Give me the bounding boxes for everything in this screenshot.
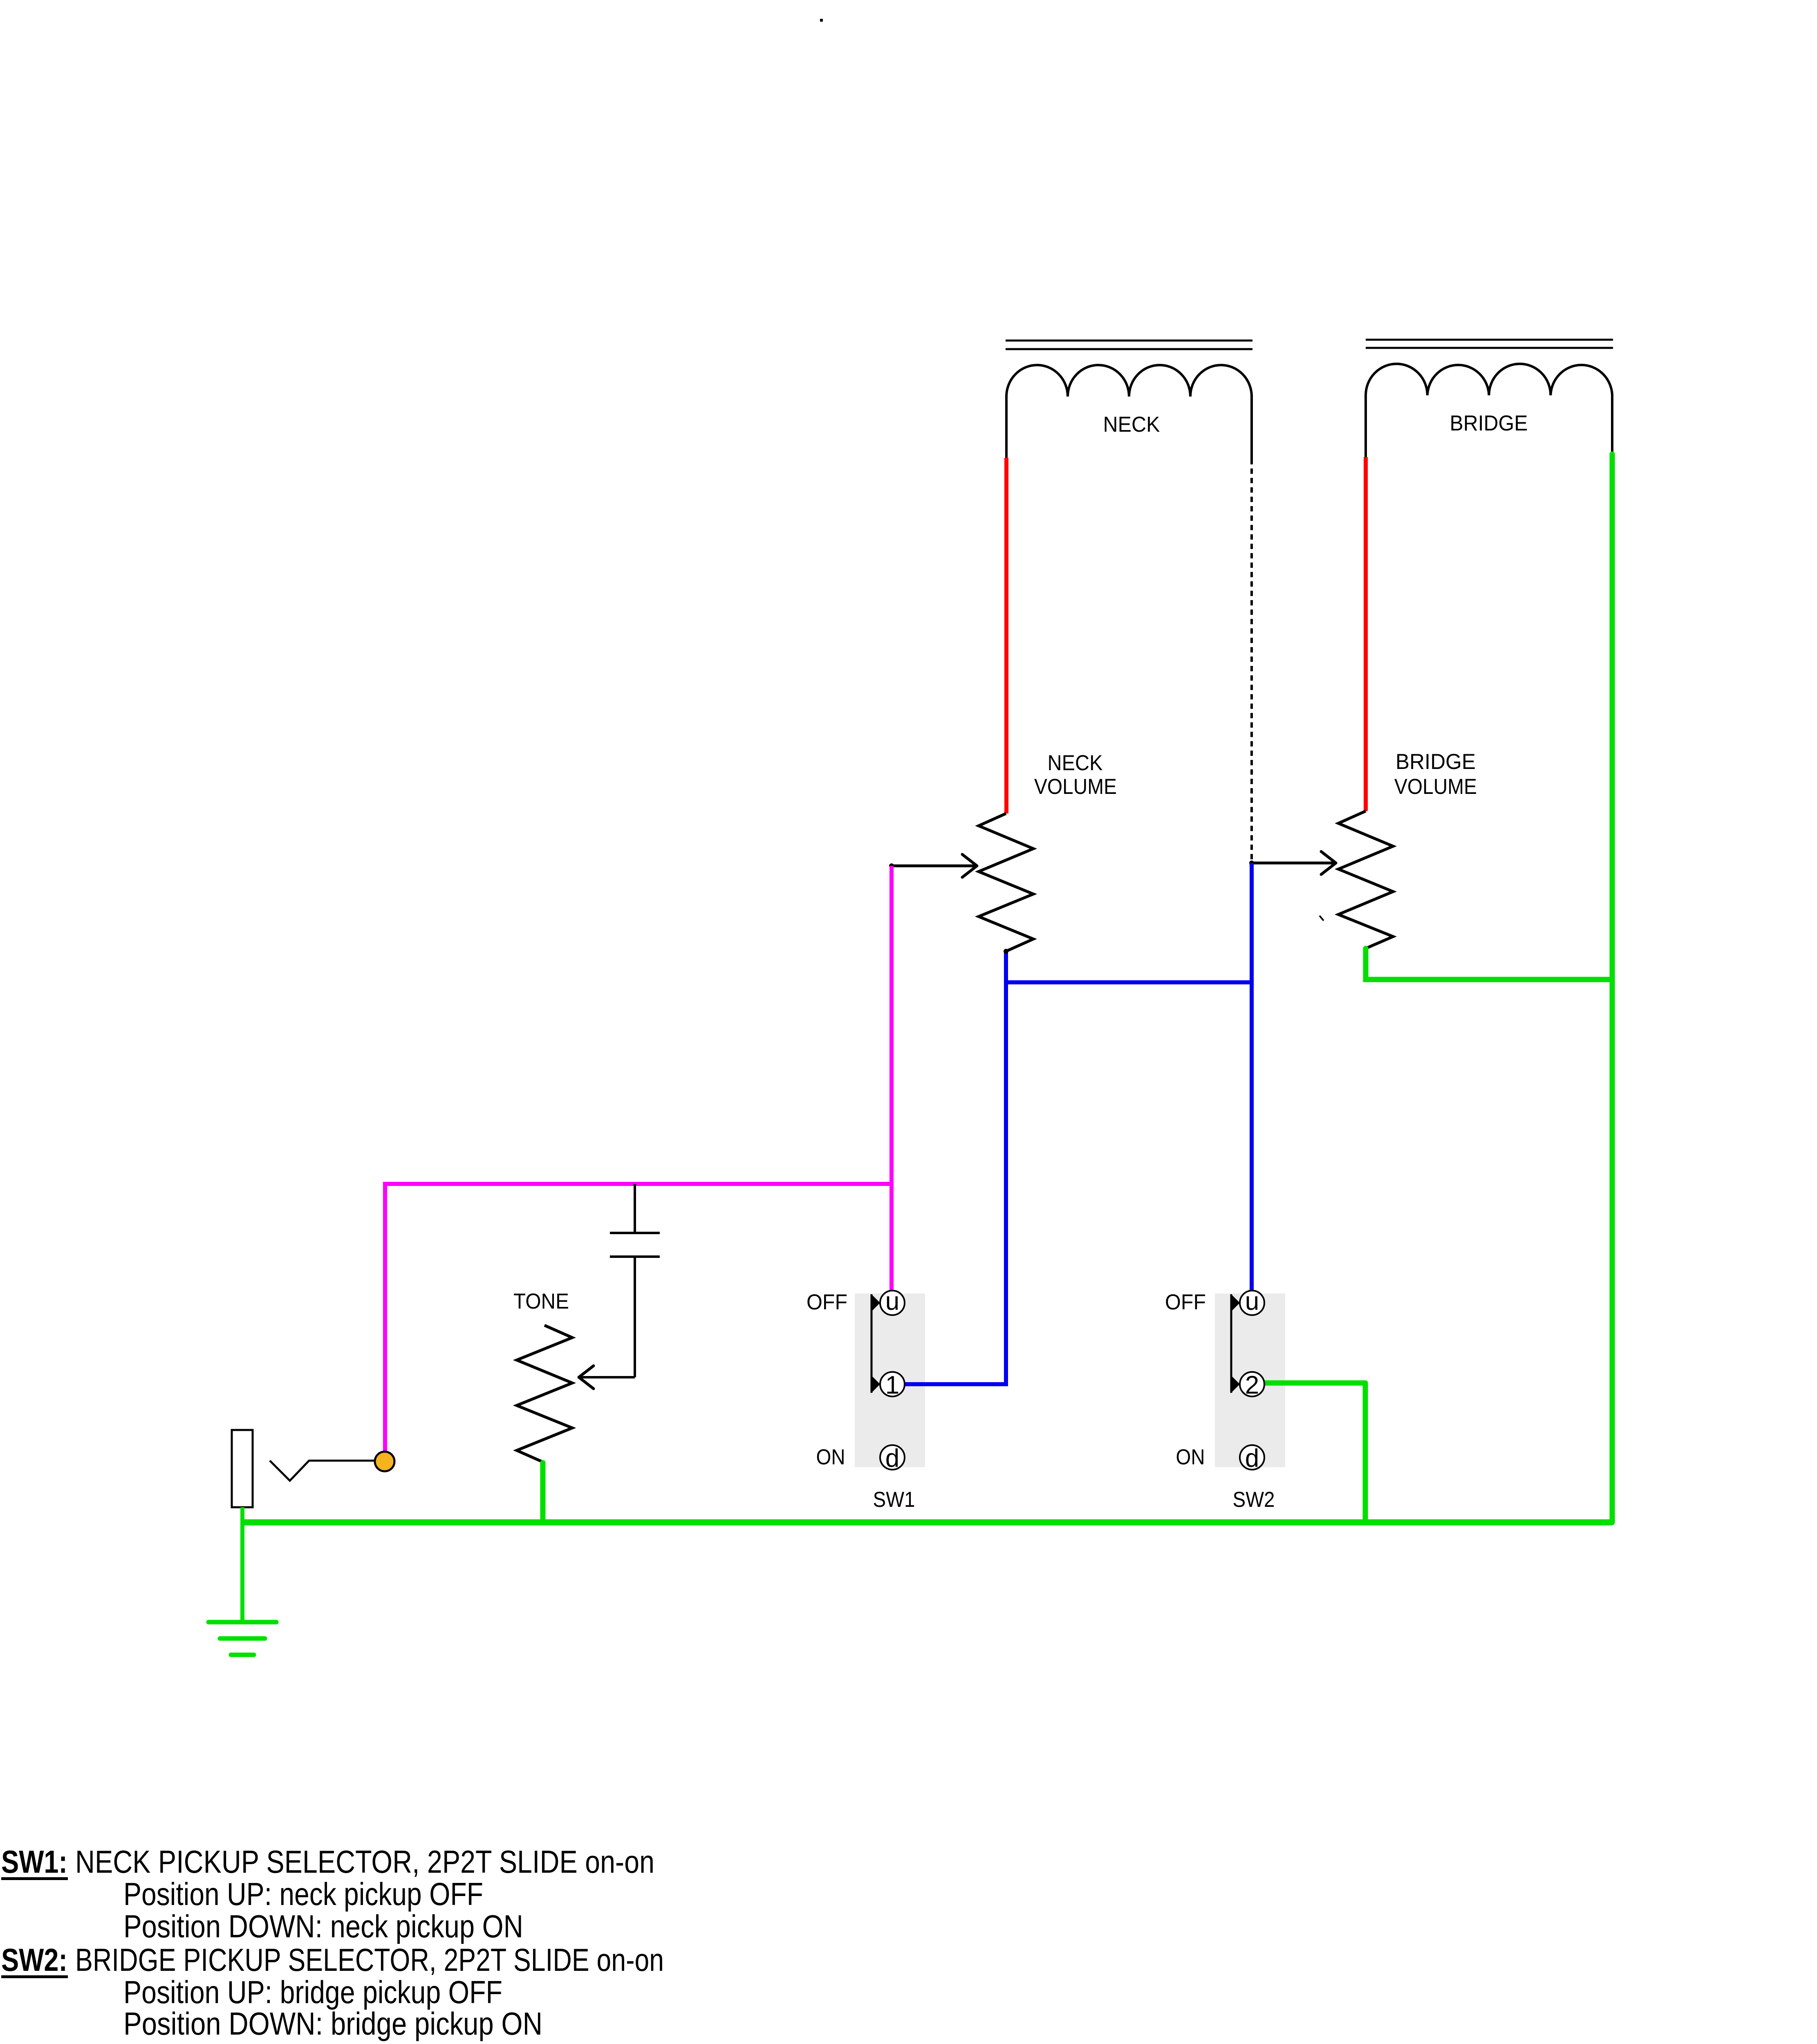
svg-text:d: d — [1245, 1444, 1259, 1472]
svg-text:Position UP: bridge pickup OFF: Position UP: bridge pickup OFF — [123, 1974, 502, 2010]
svg-text:ON: ON — [1176, 1445, 1205, 1469]
svg-text:ON: ON — [816, 1445, 845, 1469]
svg-text:VOLUME: VOLUME — [1034, 775, 1117, 799]
svg-text:NECK: NECK — [1103, 412, 1160, 437]
svg-text:VOLUME: VOLUME — [1394, 775, 1477, 799]
svg-text:Position UP: neck pickup OFF: Position UP: neck pickup OFF — [123, 1876, 483, 1912]
svg-text:BRIDGE: BRIDGE — [1396, 750, 1476, 774]
svg-text:OFF: OFF — [1165, 1290, 1206, 1314]
svg-text:BRIDGE: BRIDGE — [1450, 411, 1528, 435]
svg-text:d: d — [885, 1444, 899, 1472]
svg-text:NECK PICKUP SELECTOR, 2P2T SLI: NECK PICKUP SELECTOR, 2P2T SLIDE on-on — [75, 1844, 654, 1880]
svg-text:OFF: OFF — [807, 1290, 847, 1314]
svg-text:2: 2 — [1245, 1371, 1259, 1399]
svg-text:Position DOWN: bridge pickup O: Position DOWN: bridge pickup ON — [123, 2006, 542, 2042]
svg-text:SW1:: SW1: — [1, 1844, 67, 1880]
svg-text:1: 1 — [885, 1371, 899, 1399]
svg-text:SW2:: SW2: — [1, 1942, 67, 1978]
svg-text:u: u — [885, 1287, 899, 1316]
svg-text:SW1: SW1 — [873, 1488, 915, 1512]
svg-text:BRIDGE PICKUP SELECTOR, 2P2T S: BRIDGE PICKUP SELECTOR, 2P2T SLIDE on-on — [75, 1942, 664, 1978]
svg-text:NECK: NECK — [1048, 751, 1103, 775]
svg-text:Position DOWN: neck pickup ON: Position DOWN: neck pickup ON — [123, 1908, 523, 1944]
svg-text:SW2: SW2 — [1233, 1488, 1275, 1512]
svg-text:TONE: TONE — [513, 1289, 569, 1313]
svg-text:u: u — [1245, 1287, 1259, 1316]
